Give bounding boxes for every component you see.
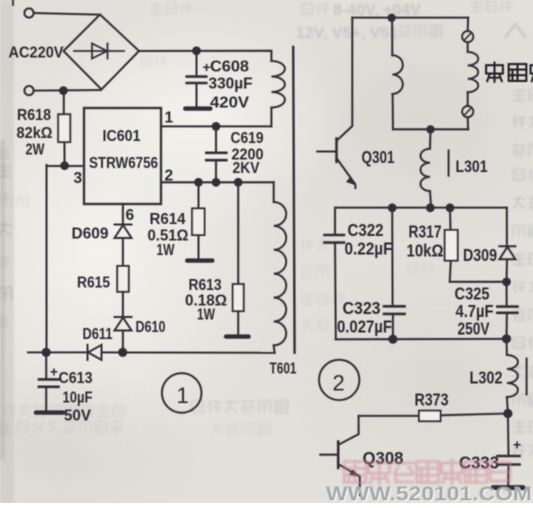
diode D611 — [87, 345, 89, 360]
node rail/C323 — [388, 203, 397, 212]
svg-text:330µF: 330µF — [209, 76, 253, 93]
svg-text:C608: C608 — [210, 59, 249, 76]
resistor R613 — [237, 182, 239, 284]
transformer T601 primary winding — [269, 51, 272, 61]
wire: Q301 collector branch — [337, 18, 353, 141]
svg-text:R613: R613 — [189, 277, 222, 294]
svg-text:R618: R618 — [17, 107, 51, 124]
svg-text:R614: R614 — [150, 211, 186, 228]
svg-text:2: 2 — [333, 371, 345, 396]
capacitor C608 — [195, 51, 197, 76]
terminal: AC line top — [24, 8, 33, 17]
svg-text:D309: D309 — [463, 245, 497, 265]
svg-text:250V: 250V — [458, 319, 490, 339]
svg-text:D610: D610 — [136, 319, 166, 336]
node: rail / C608 — [192, 46, 201, 55]
svg-text:0.027µF: 0.027µF — [337, 317, 392, 337]
wire: +310V rail — [139, 50, 269, 52]
resistor R317 — [449, 208, 452, 230]
svg-text:10µF: 10µF — [63, 389, 93, 406]
transformer T601 core — [293, 47, 294, 353]
ground (C333) — [493, 485, 523, 490]
svg-text:L302: L302 — [470, 368, 503, 388]
wire: section2 top rail — [336, 207, 507, 209]
inductor L302 — [505, 339, 507, 355]
svg-text:10kΩ: 10kΩ — [407, 241, 444, 261]
capacitor C322 — [335, 208, 336, 235]
watermark www.520101.com — [326, 483, 533, 507]
wire R615-D610 — [122, 292, 124, 317]
wire: deflection bottom rail — [393, 128, 468, 130]
inductor L301 — [429, 129, 432, 148]
svg-text:D611: D611 — [83, 326, 113, 343]
resistor R614 — [197, 182, 199, 208]
wire: section2 bottom rail — [336, 338, 507, 340]
node bottom/C323 — [388, 335, 397, 344]
svg-text:420V: 420V — [210, 95, 250, 112]
svg-text:+: + — [50, 364, 58, 379]
node rail/L301 — [426, 125, 434, 133]
node pin2/C619 — [212, 178, 221, 187]
resistor R615 — [117, 266, 129, 292]
deflection yoke winding 行偏转 — [467, 42, 469, 52]
svg-text:C323: C323 — [343, 298, 381, 318]
svg-text:R317: R317 — [409, 222, 442, 242]
capacitor C333 — [507, 414, 510, 456]
wire D609-R615 — [122, 238, 124, 266]
capacitor C619 — [215, 126, 217, 152]
transistor Q301 — [335, 139, 338, 162]
ground (C608) — [185, 106, 210, 110]
watermark 家电维修资料网 — [344, 460, 510, 484]
svg-text:D609: D609 — [72, 226, 109, 243]
resistor R373 — [441, 414, 508, 416]
transformer T601 auxiliary winding — [273, 182, 275, 202]
svg-text:STRW6756: STRW6756 — [89, 155, 158, 172]
wire top terminal to bridge — [34, 13, 98, 15]
svg-text:R615: R615 — [77, 274, 110, 291]
node L302/R373 — [503, 409, 512, 418]
capacitor C325 — [505, 282, 507, 306]
node marker circle 2 — [319, 360, 359, 400]
svg-text:R373: R373 — [415, 390, 449, 410]
ground (R613) — [226, 334, 249, 338]
svg-text:L301: L301 — [456, 157, 488, 176]
svg-text:+: + — [513, 437, 521, 453]
svg-text:50V: 50V — [64, 407, 92, 424]
svg-text:12V, V5+, V51: 12V, V5+, V51 — [296, 25, 398, 42]
ground (C613) — [36, 410, 63, 414]
wire: bottom return rail — [28, 351, 88, 353]
wire: feedback left vertical — [45, 165, 47, 352]
wire pin 2 rail — [161, 181, 274, 183]
diode D610 — [115, 316, 132, 318]
node pin2/R614 — [194, 178, 203, 187]
svg-text:8-40V, +04V: 8-40V, +04V — [333, 2, 421, 19]
svg-text:IC601: IC601 — [103, 128, 141, 145]
svg-text:2KV: 2KV — [233, 160, 261, 177]
svg-text:WWW.520101.COM: WWW.520101.COM — [326, 483, 532, 504]
svg-text:0.22µF: 0.22µF — [345, 239, 393, 259]
svg-text:1W: 1W — [157, 242, 175, 259]
op-amp / regulator IC601 STRW6756 — [84, 108, 161, 204]
diode D309 — [506, 208, 508, 247]
node: bottom AC / R618 — [59, 86, 68, 95]
node rail/D610 — [118, 348, 127, 357]
deflection yoke terminal top — [467, 18, 469, 31]
svg-text:1: 1 — [177, 383, 189, 408]
diode D609 — [115, 224, 132, 226]
node: pin1 / C619 — [212, 122, 221, 131]
svg-text:2W: 2W — [26, 141, 45, 158]
coil: output stage winding — [391, 18, 393, 55]
svg-text:1: 1 — [165, 110, 174, 127]
svg-text:Q301: Q301 — [362, 147, 395, 167]
svg-text:C619: C619 — [231, 130, 264, 147]
node: pin3 / R618 — [60, 161, 69, 170]
capacitor C613 — [45, 352, 47, 378]
wire pin 6 — [122, 204, 124, 225]
svg-text:C322: C322 — [348, 220, 384, 240]
node rail/R317 — [446, 203, 455, 212]
wire pin 3 — [47, 165, 85, 167]
node pin2/R613 — [234, 178, 243, 187]
node D309/R317 — [502, 278, 511, 287]
transistor Q308 — [339, 416, 359, 445]
resistor R618 — [63, 91, 65, 115]
wire: right top rail — [352, 17, 468, 19]
deflection yoke terminal bottom — [462, 106, 473, 117]
svg-text:3: 3 — [74, 170, 83, 187]
node rail/L301 — [426, 203, 435, 212]
node marker circle 1 — [162, 373, 202, 413]
ground (R614) — [187, 258, 212, 262]
svg-text:6: 6 — [126, 207, 135, 224]
wire bottom terminal to bridge — [34, 89, 101, 92]
node bottom/C325-L302 — [502, 334, 511, 343]
node rail/C613 — [42, 348, 51, 357]
svg-text:82kΩ: 82kΩ — [17, 125, 53, 142]
svg-text:AC220V: AC220V — [9, 45, 65, 62]
bridge rectifier — [64, 15, 140, 90]
capacitor C323 — [391, 208, 393, 306]
terminal: AC line bottom — [24, 86, 33, 95]
svg-text:T601: T601 — [270, 360, 297, 377]
svg-text:C613: C613 — [59, 370, 93, 387]
wire pin 1 to transformer — [161, 125, 271, 127]
bridge diode symbol — [74, 50, 124, 52]
label 行偏转 — [486, 62, 503, 82]
node top rail — [387, 14, 395, 22]
wire D610-rail — [122, 331, 124, 353]
crop stub top-left — [12, 0, 14, 5]
svg-text:1W: 1W — [197, 306, 215, 323]
